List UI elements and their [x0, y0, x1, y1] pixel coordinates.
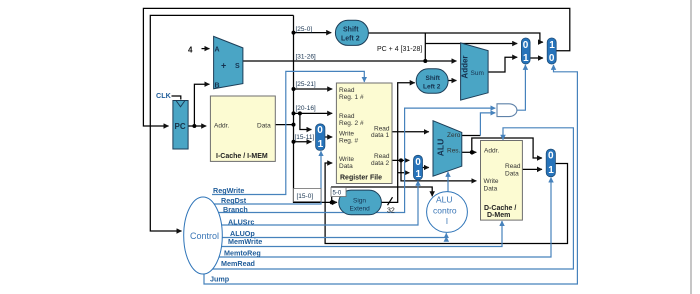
svg-text:ALUSrc: ALUSrc	[228, 218, 254, 227]
svg-text:1: 1	[318, 139, 324, 150]
svg-text:Res.: Res.	[447, 148, 461, 155]
svg-text:[15-11]: [15-11]	[295, 134, 315, 141]
svg-text:Shift: Shift	[426, 75, 441, 82]
svg-text:Jump: Jump	[210, 275, 230, 284]
svg-text:Reg. #: Reg. #	[339, 138, 359, 145]
svg-text:Write: Write	[339, 156, 354, 163]
svg-text:A: A	[215, 47, 220, 54]
svg-text:MemRead: MemRead	[221, 259, 255, 268]
svg-text:B: B	[215, 83, 220, 90]
svg-text:1: 1	[549, 40, 555, 51]
svg-text:PC + 4 [31-28]: PC + 4 [31-28]	[377, 46, 422, 53]
svg-text:Write: Write	[339, 131, 354, 138]
svg-text:Addr.: Addr.	[484, 148, 499, 155]
svg-text:Data: Data	[339, 163, 353, 170]
svg-text:Register File: Register File	[340, 175, 382, 182]
svg-text:Extend: Extend	[350, 206, 371, 213]
svg-text:Reg. 2 #: Reg. 2 #	[339, 120, 364, 127]
svg-text:Adder: Adder	[461, 55, 470, 78]
svg-text:1: 1	[548, 165, 554, 176]
svg-text:D-Cache /: D-Cache /	[484, 205, 516, 212]
svg-text:Data: Data	[257, 123, 271, 130]
svg-text:RegWrite: RegWrite	[213, 186, 244, 195]
svg-text:1: 1	[416, 169, 422, 180]
svg-text:Sum: Sum	[471, 70, 484, 77]
svg-text:Shift: Shift	[343, 27, 359, 34]
svg-text:data 2: data 2	[371, 160, 389, 167]
svg-text:CLK: CLK	[156, 91, 172, 100]
svg-text:Control: Control	[190, 231, 219, 241]
svg-text:4: 4	[188, 46, 193, 55]
svg-text:[31-26]: [31-26]	[296, 54, 316, 61]
svg-text:Reg. 1 #: Reg. 1 #	[339, 94, 364, 101]
svg-text:1: 1	[523, 53, 529, 64]
svg-text:32: 32	[387, 208, 395, 215]
svg-text:I-Cache / I-MEM: I-Cache / I-MEM	[216, 153, 268, 160]
svg-text:data 1: data 1	[371, 132, 389, 139]
svg-text:Read: Read	[505, 163, 521, 170]
svg-text:Left 2: Left 2	[423, 84, 441, 91]
svg-text:Write: Write	[484, 178, 499, 185]
svg-text:Addr.: Addr.	[214, 123, 229, 130]
svg-text:Zero: Zero	[447, 132, 461, 139]
svg-text:PC: PC	[175, 122, 186, 131]
svg-text:0: 0	[548, 151, 554, 162]
svg-text:[25-21]: [25-21]	[296, 81, 316, 88]
svg-text:contro: contro	[433, 206, 457, 216]
svg-text:MemWrite: MemWrite	[228, 237, 262, 246]
svg-text:ALU: ALU	[436, 195, 453, 205]
svg-text:Read: Read	[339, 113, 355, 120]
svg-text:Data: Data	[484, 186, 498, 193]
svg-text:MemtoReg: MemtoReg	[224, 249, 261, 258]
svg-text:5-0: 5-0	[333, 191, 342, 197]
svg-text:0: 0	[523, 40, 529, 51]
svg-text:+: +	[221, 61, 226, 71]
svg-text:Read: Read	[339, 87, 355, 94]
svg-text:D-Mem: D-Mem	[487, 212, 510, 219]
svg-text:0: 0	[415, 157, 421, 168]
svg-text:0: 0	[549, 53, 555, 64]
svg-text:ALU: ALU	[436, 139, 446, 156]
svg-text:[15-0]: [15-0]	[297, 193, 314, 200]
svg-text:RegDst: RegDst	[221, 196, 247, 205]
svg-text:Data: Data	[505, 171, 519, 178]
svg-text:[20-16]: [20-16]	[296, 105, 316, 112]
svg-text:Sign: Sign	[353, 198, 366, 205]
svg-text:l: l	[446, 216, 448, 226]
svg-text:Branch: Branch	[223, 205, 248, 214]
svg-text:[25-0]: [25-0]	[296, 26, 313, 33]
svg-text:0: 0	[317, 125, 323, 136]
svg-text:S: S	[235, 63, 240, 70]
svg-text:Left 2: Left 2	[341, 36, 360, 43]
